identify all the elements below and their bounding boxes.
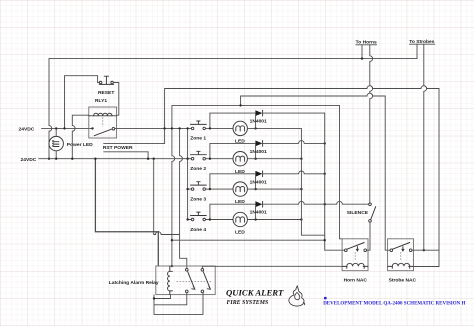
node Power LED top on rail A bbox=[55, 127, 57, 129]
node riser x=179.6 on rail A bbox=[178, 127, 180, 129]
node latch bottom tie bbox=[153, 297, 155, 299]
node zone4 on lamp bus bbox=[300, 218, 302, 220]
wire relay coil left to rail B, hop over rail A bbox=[72, 115, 89, 159]
node zone3 tee bbox=[209, 188, 211, 190]
wire RESET left leg from rail A up to button bbox=[65, 76, 100, 129]
wire To Horns terminal bar bbox=[356, 44, 377, 46]
node junction x=49 on 24VDC- rail bbox=[48, 158, 50, 160]
svg-text:DEVELOPMENT MODEL QA-2400 SCHE: DEVELOPMENT MODEL QA-2400 SCHEMATIC REVI… bbox=[323, 301, 465, 306]
wire zone3 diode output to diode bus, hop lamp bus bbox=[263, 171, 325, 174]
wire zone1 diode output to diode bus corner bbox=[263, 112, 325, 114]
wire zone2 lamp right to lamp bus bbox=[247, 158, 301, 160]
node lower stub on rail B bbox=[147, 158, 149, 160]
wire top rail net TOP (y=58.6 from x=49 to 417) bbox=[49, 58, 417, 60]
wire 24VDC+ rail A (y=128.4) bbox=[42, 127, 93, 129]
node zone3 feed bbox=[186, 188, 188, 190]
node RESET leg on rail A bbox=[63, 127, 65, 129]
node RLY1 common contact on rail A bbox=[91, 127, 93, 129]
diode 1N4001 zone2 bbox=[255, 141, 262, 147]
svg-text:24VDC: 24VDC bbox=[21, 157, 37, 163]
lamp Power LED bbox=[49, 128, 63, 158]
svg-text:1N4001: 1N4001 bbox=[250, 119, 267, 125]
node riser x=171.9 on rail A bbox=[171, 127, 173, 129]
wire lamp return bus x=301.4 down to diode bus tail bbox=[301, 128, 324, 235]
diode 1N4001 zone1 bbox=[255, 110, 262, 116]
wire latch coil feed y=240.2 from riser to diode bus bbox=[172, 239, 325, 241]
wire latch bottom tie: coil bottom, switch returns bbox=[154, 293, 203, 315]
diode 1N4001 zone3 bbox=[255, 171, 262, 177]
svg-text:Zone 2: Zone 2 bbox=[190, 166, 206, 172]
wire RESET right leg down to relay coil right pin bbox=[113, 83, 119, 116]
svg-text:24VDC: 24VDC bbox=[19, 126, 35, 132]
wire zone4 feed stub bbox=[188, 219, 192, 221]
svg-text:FIRE SYSTEMS: FIRE SYSTEMS bbox=[227, 300, 269, 306]
node zone2 tee bbox=[209, 158, 211, 160]
wire zone feed riser x=187.6 from rail A down to Zone 4 bbox=[187, 128, 189, 219]
wire diode bus x=324.7 down to Horn NAC common bbox=[325, 113, 345, 250]
node zone3 on lamp bus bbox=[300, 188, 302, 190]
svg-text:QUICK ALERT: QUICK ALERT bbox=[226, 288, 284, 298]
wire zone1 output to lamp and up to diode line bbox=[206, 113, 256, 128]
wire To Strobes right lead down to strobe contact wire, hop y=88.5 bbox=[424, 44, 427, 250]
svg-text:1N4001: 1N4001 bbox=[250, 210, 267, 216]
wire To Horns left lead to top rail bbox=[361, 45, 363, 59]
node zone2 on diode bus bbox=[324, 142, 326, 144]
wire zone3 output to lamp and up to diode line bbox=[206, 174, 256, 189]
pushbutton Zone 3 bbox=[191, 182, 207, 191]
node zone feed at rail B / zone2 row bbox=[186, 158, 188, 160]
relay Horn NAC bbox=[342, 239, 368, 271]
node blue marker bbox=[324, 297, 327, 299]
wire zone2 lamp to diode anode riser bbox=[255, 143, 257, 158]
wire zone1 lamp to diode anode riser bbox=[255, 113, 257, 128]
node zone4 lamp-diode tie bbox=[254, 218, 256, 220]
wire zone4 output to lamp and up to diode line bbox=[206, 204, 256, 219]
wire RST POWER stub bbox=[104, 128, 165, 143]
node RST POWER riser on rail A bbox=[163, 127, 165, 129]
node stub tee on y=105.4 bbox=[239, 104, 241, 106]
node coil-left on rail B bbox=[71, 158, 73, 160]
node latch feed on diode bus bbox=[324, 239, 326, 241]
svg-text:SILENCE: SILENCE bbox=[347, 210, 369, 216]
pushbutton Zone 2 bbox=[191, 151, 207, 160]
wire zone3 feed stub bbox=[188, 188, 192, 190]
diode 1N4001 zone4 bbox=[255, 201, 262, 207]
node latch feed on riser bbox=[171, 239, 173, 241]
node To Horns lead on top rail bbox=[361, 57, 363, 59]
lamp LED zone2 bbox=[233, 152, 247, 166]
wire diode-bus branch riser x=171.9 from y=105.4 down to latch coil, hop rail B bbox=[172, 105, 175, 266]
svg-text:Zone 4: Zone 4 bbox=[190, 227, 206, 233]
node zone2 on lamp bus bbox=[300, 158, 302, 160]
wire zone2 output to lamp and up to diode line bbox=[206, 143, 256, 158]
relay Latching Alarm Relay bbox=[156, 266, 215, 295]
node riser x=171.9 at latch coil top bbox=[171, 265, 173, 267]
wire net to NAC coils: rail A up to y=88.5 across to far right down to strobe coil bbox=[165, 86, 439, 267]
wire zone4 lamp to diode anode riser bbox=[255, 204, 257, 219]
wire switched rail A right of RLY1 to Zone 1 button bbox=[115, 127, 192, 129]
lamp LED zone4 bbox=[233, 212, 247, 226]
node zone4 tee bbox=[209, 218, 211, 220]
wire zone3 lamp right to lamp bus bbox=[247, 188, 301, 190]
node zone4 feed bbox=[186, 218, 188, 220]
wire RST POWER lower stub to rail B bbox=[104, 152, 148, 159]
node branch on rail B bbox=[94, 158, 96, 160]
wire left drop x=49 from top rail to 24VDC- rail, hop over 24VDC+ rail bbox=[49, 59, 52, 159]
svg-text:Horn NAC: Horn NAC bbox=[344, 278, 368, 284]
wire zone3 lamp to diode anode riser bbox=[255, 174, 257, 189]
lamp LED zone3 bbox=[233, 182, 247, 196]
svg-text:Power LED: Power LED bbox=[67, 142, 93, 148]
wire To Strobes left lead to top rail end bbox=[416, 44, 418, 58]
wire 24VDC- rail B (y=158.7 from x=38.7 to zone2 button) bbox=[39, 158, 192, 160]
svg-text:1N4001: 1N4001 bbox=[250, 179, 267, 185]
node zone1 tee bbox=[209, 127, 211, 129]
wire riser x=339.5 down to Horn NAC box bbox=[340, 105, 343, 238]
node Power LED bottom on rail B bbox=[55, 158, 57, 160]
svg-text:LED: LED bbox=[235, 230, 245, 236]
pushbutton Zone 1 bbox=[191, 121, 207, 130]
node To Strobes lead on contact wire bbox=[423, 249, 425, 251]
node zone feed on rail A bbox=[186, 127, 188, 129]
wire To Horns right lead down to SILENCE, hops top rail and y=88.5 and y=96 bbox=[370, 45, 373, 203]
wire zone4 lamp right to lamp bus bbox=[247, 219, 301, 221]
wire stub from y=105.4 up to y=96 line bbox=[241, 93, 390, 250]
relay RLY1 bbox=[89, 107, 117, 138]
svg-text:RST POWER: RST POWER bbox=[103, 145, 133, 151]
svg-text:RLY1: RLY1 bbox=[95, 98, 107, 104]
pushbutton Zone 4 bbox=[191, 212, 207, 221]
node zone4 on diode bus bbox=[324, 203, 326, 205]
wire zone1 lamp right to lamp bus corner bbox=[247, 127, 301, 129]
wire To Strobes terminal bar bbox=[410, 43, 435, 45]
svg-text:RESET: RESET bbox=[98, 90, 114, 96]
wire rail B branch x=95.4 down and over to latch box top left bbox=[95, 159, 158, 266]
switch SILENCE bbox=[369, 203, 376, 222]
node zone3 lamp-diode tie bbox=[254, 188, 256, 190]
svg-text:Latching Alarm Relay: Latching Alarm Relay bbox=[109, 280, 159, 286]
wire zone4 diode output across to silence switch, hops lamp bus and horn riser bbox=[263, 201, 370, 204]
icon flame bbox=[289, 286, 305, 306]
node branch x=153.7 on rail B bbox=[153, 158, 155, 160]
pushbutton RESET bbox=[99, 76, 113, 84]
wire riser x=179.6 from rail A down joins latch feed bbox=[180, 128, 183, 234]
relay Strobe NAC bbox=[388, 239, 414, 271]
node zone3 on diode bus bbox=[324, 173, 326, 175]
node zone1 lamp-diode tie bbox=[254, 127, 256, 129]
wire Strobe NAC NO contact to To Strobes / coil net bbox=[412, 249, 439, 251]
node zone2 lamp-diode tie bbox=[254, 158, 256, 160]
wire upper feed y=105.4 from riser to right bbox=[172, 104, 340, 106]
svg-text:Zone 1: Zone 1 bbox=[190, 136, 206, 142]
wire zone2 diode output to diode bus, hop lamp bus bbox=[263, 141, 325, 144]
svg-text:Strobe NAC: Strobe NAC bbox=[389, 278, 417, 284]
wire SILENCE bottom to Horn NAC NO contact bbox=[367, 222, 371, 250]
wire rail B branch x=153.7 down to latch switch1 top, hop x=158.3 bbox=[154, 159, 187, 269]
lamp LED zone1 bbox=[233, 121, 247, 135]
svg-text:1N4001: 1N4001 bbox=[250, 149, 267, 155]
wire latch switch2 top to Horn NAC coil bbox=[202, 266, 342, 268]
svg-text:Zone 3: Zone 3 bbox=[190, 196, 206, 202]
